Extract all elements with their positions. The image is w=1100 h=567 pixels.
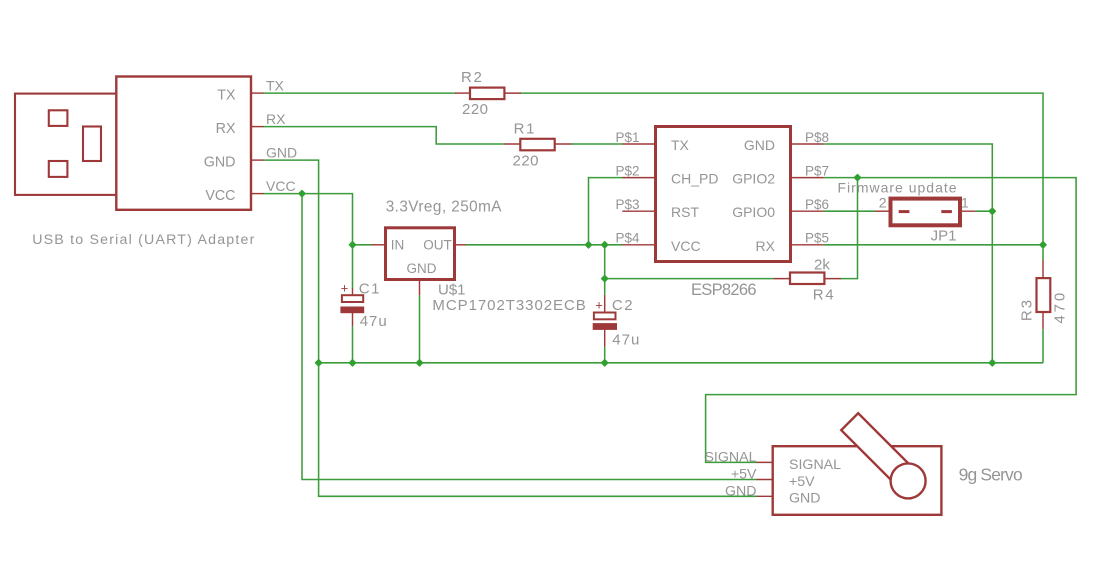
servo horn circle: [891, 463, 926, 498]
svg-text:P$2: P$2: [616, 163, 640, 178]
resistor R4 pin stubs: [774, 278, 791, 280]
wire net GND from adapter down left side to servo GND: [263, 160, 757, 496]
svg-text:47u: 47u: [360, 313, 388, 330]
svg-text:MCP1702T3302ECB: MCP1702T3302ECB: [432, 297, 586, 314]
resistor R2 pin stubs: [455, 92, 470, 94]
wire net RX from adapter stepping down to R1: [263, 127, 505, 144]
USB plug contact square lower: [49, 161, 68, 177]
svg-text:OUT: OUT: [423, 237, 452, 252]
svg-text:IN: IN: [391, 237, 405, 252]
svg-text:P$1: P$1: [616, 130, 640, 145]
svg-text:GND: GND: [266, 145, 297, 161]
svg-text:470: 470: [1052, 290, 1069, 324]
svg-text:RST: RST: [671, 204, 699, 220]
svg-text:+: +: [341, 281, 349, 296]
jumper JP1 contact dash pin 1: [941, 210, 952, 213]
regulator U$1 pin stubs IN OUT GND: [371, 244, 386, 246]
junction GND line / rail: [989, 360, 995, 366]
junction TX net / P$5 / R3: [1040, 242, 1046, 248]
wire net GPIO2 from ESP P$7 to far right and down to servo SIGNAL: [706, 178, 1077, 463]
junction regulator GND / rail: [416, 360, 422, 366]
svg-text:GPIO2: GPIO2: [732, 171, 775, 187]
wire C1 top connection: [352, 245, 354, 289]
svg-text:GND: GND: [204, 154, 236, 170]
svg-text:P$5: P$5: [805, 231, 829, 246]
junction GPIO2 / R4: [854, 174, 860, 180]
wire net GPIO0 from ESP P$6 to JP1 pin 2: [824, 210, 875, 212]
svg-text:P$8: P$8: [805, 130, 829, 145]
wire C2 bottom to ground rail: [604, 347, 606, 363]
svg-text:GND: GND: [725, 484, 757, 500]
svg-text:GPIO0: GPIO0: [732, 204, 775, 220]
svg-text:JP1: JP1: [931, 227, 957, 244]
svg-text:P$6: P$6: [805, 197, 829, 212]
junction VCC to servo +5V: [299, 190, 305, 196]
svg-text:TX: TX: [217, 87, 236, 103]
svg-text:SIGNAL: SIGNAL: [789, 457, 841, 473]
svg-text:220: 220: [513, 153, 540, 170]
wire regulator GND to ground rail: [419, 295, 421, 363]
svg-text:P$4: P$4: [616, 231, 641, 246]
wire from R4 right up to GPIO2 net: [841, 178, 858, 279]
wire net RX2 from ESP P$5 to R3 top node: [824, 244, 1043, 246]
resistor R2 body: [470, 88, 504, 100]
voltage regulator U$1 box: [386, 228, 455, 280]
svg-text:R2: R2: [461, 69, 484, 86]
resistor R3 body: [1037, 278, 1051, 312]
svg-text:9g Servo: 9g Servo: [959, 465, 1022, 485]
capacitor C2 top plate: [594, 313, 616, 320]
svg-text:TX: TX: [266, 78, 285, 94]
junction 3V3 / C2 branch: [602, 242, 608, 248]
svg-text:VCC: VCC: [205, 188, 235, 204]
svg-text:47u: 47u: [612, 332, 640, 349]
svg-text:3.3Vreg, 250mA: 3.3Vreg, 250mA: [386, 199, 503, 216]
svg-text:2: 2: [879, 195, 887, 211]
servo pin stubs SIGNAL +5V GND: [757, 461, 774, 463]
svg-text:Firmware update: Firmware update: [838, 180, 958, 196]
svg-text:CH_PD: CH_PD: [671, 171, 718, 187]
jumper JP1 contact dash pin 2: [899, 210, 910, 213]
svg-text:+5V: +5V: [789, 474, 815, 490]
svg-text:RX: RX: [756, 238, 776, 254]
servo arm: [841, 413, 917, 489]
capacitor C1 lead stubs: [352, 288, 354, 295]
jumper JP1 pin stubs: [875, 210, 891, 212]
junction C2 / GND rail: [602, 360, 608, 366]
junction 3V3 / CH_PD branch: [585, 242, 591, 248]
wire ground rail: [319, 362, 1043, 364]
resistor R3 pin stubs: [1042, 260, 1044, 278]
capacitor C1 bottom plate: [340, 307, 364, 314]
wire net VCC from adapter to regulator IN: [263, 194, 372, 245]
wire C1 bottom to ground rail: [352, 326, 354, 363]
junction C2 / R4: [602, 275, 608, 281]
USB plug body of adapter: [15, 94, 117, 195]
wire R3 top connection: [1042, 245, 1044, 261]
svg-text:1: 1: [961, 195, 969, 211]
resistor R1 pin stubs: [504, 143, 520, 145]
svg-text:GND: GND: [407, 261, 437, 276]
wire net 3V3 branch up to ESP CH_PD pin P$2: [589, 178, 623, 245]
svg-text:GND: GND: [744, 137, 775, 153]
svg-text:GND: GND: [789, 491, 821, 507]
wire net TX from R2 right to ESP RX (P$5) via right side: [521, 93, 1044, 245]
svg-text:RX: RX: [266, 111, 286, 127]
svg-text:+5V: +5V: [731, 467, 757, 483]
USB plug contact square upper: [49, 110, 68, 126]
junction JP1 pin1 / GND line: [989, 208, 995, 214]
svg-text:USB to Serial (UART) Adapter: USB to Serial (UART) Adapter: [32, 232, 255, 248]
wire net TX from adapter to R2: [263, 92, 456, 94]
svg-text:P$3: P$3: [616, 197, 640, 212]
adapter pin stubs TX RX GND VCC: [251, 92, 264, 94]
svg-text:ESP8266: ESP8266: [691, 281, 756, 299]
svg-text:R4: R4: [813, 287, 836, 304]
svg-text:220: 220: [462, 101, 489, 118]
wire net RX from R1 to ESP TX pin P$1: [571, 143, 623, 145]
svg-text:2k: 2k: [814, 257, 830, 274]
USB to Serial adapter box: [116, 77, 251, 210]
svg-text:C2: C2: [612, 297, 634, 314]
svg-text:+: +: [595, 298, 603, 313]
servo motor box: [773, 446, 942, 515]
wire from JP1 pin 1 to GND line: [976, 210, 993, 212]
ESP8266 right pin stubs P$5-P$8: [790, 143, 824, 145]
wire net 3V3 from regulator OUT to ESP VCC pin P$4: [465, 244, 623, 246]
svg-text:R3: R3: [1019, 298, 1036, 321]
junction C1 / GND rail: [349, 360, 355, 366]
jumper JP1 body: [891, 199, 961, 226]
capacitor C2 lead stubs: [604, 295, 606, 313]
wire R3 bottom to ground rail: [1042, 329, 1044, 363]
svg-text:RX: RX: [216, 121, 236, 137]
svg-text:VCC: VCC: [671, 238, 701, 254]
resistor R1 body: [520, 139, 554, 151]
svg-text:P$7: P$7: [805, 163, 829, 178]
svg-text:SIGNAL: SIGNAL: [704, 450, 756, 466]
resistor R4 body: [790, 273, 824, 285]
wire net 3V3 branch down to C2 and R4: [604, 245, 606, 295]
junction GND rail left / servo GND: [315, 360, 321, 366]
svg-text:TX: TX: [671, 137, 690, 153]
wire net +5V from VCC junction down to servo +5V: [302, 194, 757, 480]
svg-text:C1: C1: [359, 280, 381, 297]
svg-text:R1: R1: [514, 121, 537, 138]
capacitor C2 bottom plate: [593, 323, 617, 330]
ESP8266 module box U2: [656, 127, 791, 262]
wire net GND from ESP P$8 down right side to ground rail: [824, 144, 993, 363]
wire from 3V3 node to R4 left: [605, 278, 774, 280]
ESP8266 left pin stubs P$1-P$4: [622, 143, 656, 145]
USB plug contact rectangle middle: [83, 127, 101, 162]
junction regulator IN / C1: [349, 242, 355, 248]
capacitor C1 top plate: [342, 295, 363, 302]
svg-text:VCC: VCC: [266, 178, 296, 194]
